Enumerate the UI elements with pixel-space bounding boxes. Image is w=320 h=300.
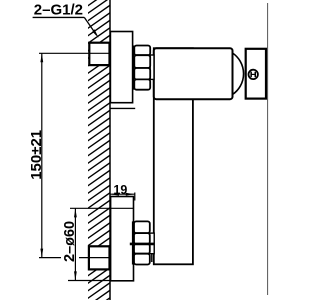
svg-text:19: 19 — [113, 183, 127, 197]
phi60 top extension line — [70, 207, 134, 209]
body end dome arc — [233, 53, 244, 95]
line below top flange — [110, 107, 135, 109]
wall section hatch — [66, 0, 132, 300]
mixer horizontal body — [154, 48, 233, 99]
bottom G1/2 wall fitting — [89, 246, 110, 269]
dimension 150+/-21 (line, arrows, text) — [41, 53, 43, 257]
wall face line — [109, 0, 111, 300]
phi60 bottom extension line — [68, 280, 111, 282]
handle knob — [246, 49, 266, 99]
bottom connection thick centerline — [130, 243, 155, 246]
dimension 19 (line, extension, arrows, text) — [110, 193, 135, 195]
svg-text:150±21: 150±21 — [28, 130, 45, 180]
knob indicator H glyph — [250, 72, 256, 77]
bottom inlet centerline / extension line (2 segments) — [39, 257, 61, 259]
right border line — [267, 3, 269, 295]
svg-text:2–ø60: 2–ø60 — [62, 221, 78, 262]
mixer vertical body (downpipe) — [154, 48, 193, 264]
top G1/2 wall fitting — [89, 43, 109, 65]
top union nut (4 facet bands) — [134, 46, 150, 90]
bottom union nut left washer edge — [132, 221, 134, 264]
dimension 2-phi60 (line, arrows, text) — [74, 208, 76, 280]
top inlet centerline / extension line — [39, 52, 110, 54]
svg-text:2–G1/2: 2–G1/2 — [34, 1, 83, 18]
top union nut left washer edge — [132, 46, 134, 90]
bottom connector stub — [150, 233, 154, 254]
knob hot/cold indicator circle — [249, 70, 258, 79]
top escutcheon flange — [110, 32, 132, 103]
bottom escutcheon flange — [111, 197, 134, 281]
bottom union nut (4 facet bands) — [134, 221, 150, 264]
top connector stub — [150, 55, 154, 79]
